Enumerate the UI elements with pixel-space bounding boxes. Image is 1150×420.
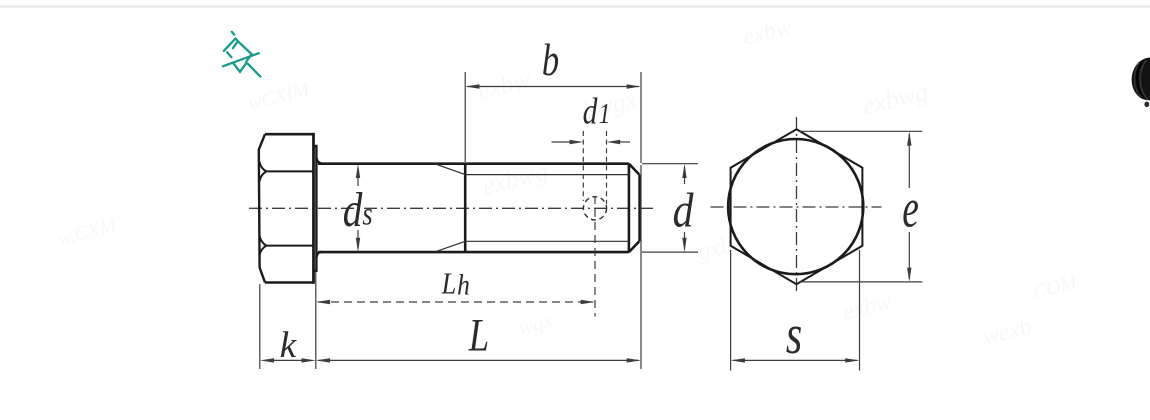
svg-text:e: e xyxy=(902,179,919,240)
hex head outline xyxy=(259,133,314,284)
hexagon xyxy=(731,129,863,284)
head facet lines and arcs xyxy=(259,162,313,256)
svg-text:d: d xyxy=(673,182,694,237)
svg-text:s: s xyxy=(362,196,372,232)
dimension Lh xyxy=(316,196,595,317)
svg-text:d: d xyxy=(583,91,598,132)
dimension ds arrows xyxy=(356,164,360,252)
dimension d1 xyxy=(552,131,631,204)
cross hole dashed circle xyxy=(583,197,606,220)
dimension k xyxy=(260,272,316,369)
svg-text:s: s xyxy=(786,303,802,365)
dimension e xyxy=(799,131,922,282)
watermark texts xyxy=(56,14,1081,351)
svg-text:L: L xyxy=(468,309,489,361)
bolt centerline xyxy=(249,207,654,209)
svg-text:h: h xyxy=(457,269,470,302)
top border line xyxy=(0,5,1150,7)
shank outline xyxy=(318,164,639,252)
svg-text:k: k xyxy=(280,325,297,366)
pushpin icon xyxy=(223,32,261,77)
washer face collar xyxy=(314,146,323,271)
dimension d xyxy=(642,164,698,252)
hex view centerlines xyxy=(711,117,882,294)
dark bolt photo fragment at right edge xyxy=(1132,58,1150,108)
dimension L xyxy=(316,165,641,369)
svg-text:1: 1 xyxy=(599,98,611,130)
thread minor diameter lines and runout xyxy=(435,164,630,252)
inscribed circle xyxy=(728,139,863,274)
svg-text:b: b xyxy=(542,34,559,85)
dimension s xyxy=(731,250,860,371)
dimension b xyxy=(465,72,641,163)
svg-text:L: L xyxy=(441,267,457,301)
svg-text:d: d xyxy=(343,182,363,237)
